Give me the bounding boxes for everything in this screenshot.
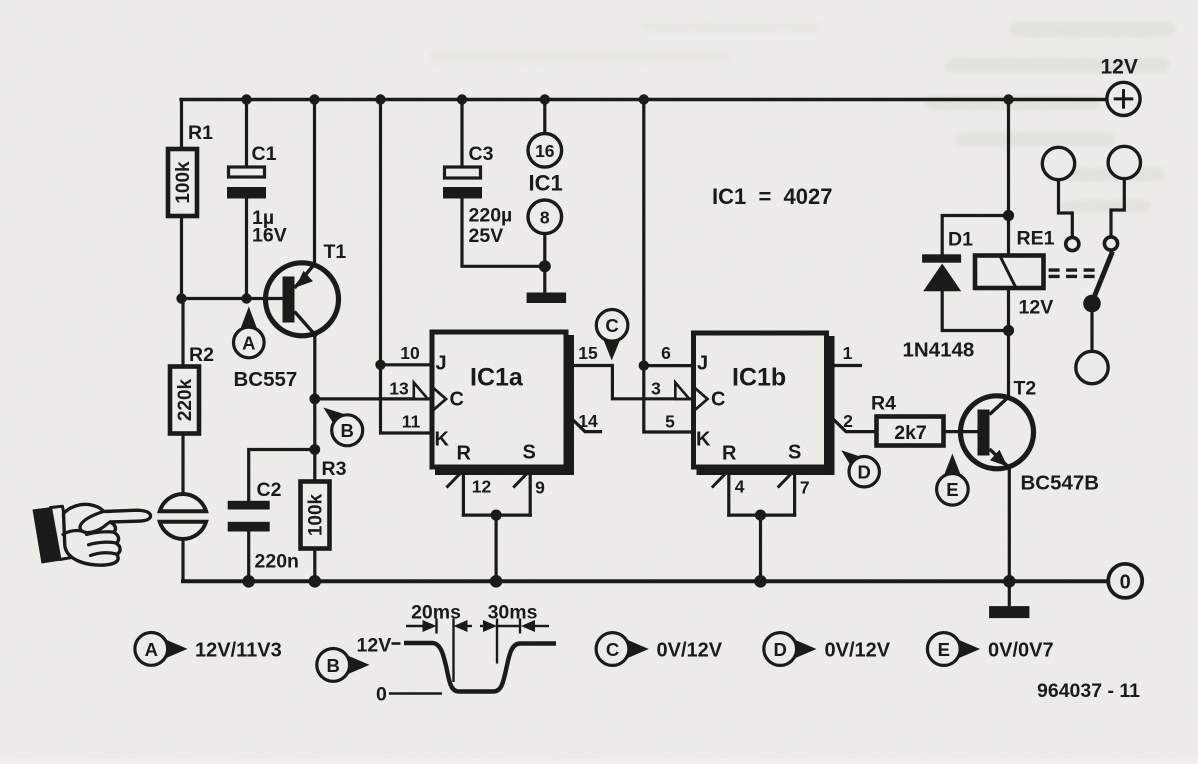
ground bar at 0V rail right — [989, 606, 1029, 618]
wire: IC1a Q output 15 to IC1b clock pin 3 — [567, 366, 692, 399]
wire: T1 collector down to R3 — [313, 334, 316, 481]
IC1b clock flag — [675, 383, 689, 399]
legend marker D — [764, 633, 891, 666]
IC1a clock chevron — [431, 386, 447, 413]
wire: C1 upper lead — [245, 100, 248, 168]
IC1a pin number labels — [389, 343, 598, 498]
wire: IC1a pin 12 flag — [448, 471, 464, 487]
wire: right contact lead — [1111, 179, 1124, 237]
wire: C3 lower lead across to IC1 pin 8 node — [462, 198, 545, 266]
resistor R3 — [301, 482, 330, 549]
switch lever — [1093, 252, 1113, 302]
wire: IC1b S pin 7 — [793, 468, 796, 515]
waveform trace — [404, 643, 556, 692]
wire: T1 emitter to top rail — [313, 100, 316, 267]
wire: D1 bottom branch — [942, 291, 1008, 331]
dimension arrowheads — [423, 620, 437, 632]
wire: IC1b J/K tie vertical from top rail — [644, 100, 692, 433]
wire: switch pole lead — [1090, 304, 1093, 352]
op-amp block IC1b (JK flip-flop) — [675, 333, 832, 473]
dimension lines 30ms — [480, 625, 485, 627]
hand pointer icon — [33, 504, 151, 565]
wire: IC1b R-S join — [729, 513, 795, 516]
0V terminal — [1108, 564, 1142, 598]
node C marker — [596, 310, 628, 361]
wire: IC1b R pin 4 — [727, 468, 730, 515]
wire: T2 emitter to 0V rail — [1008, 468, 1011, 582]
ground bar under IC1 pin 8 — [527, 293, 567, 304]
switch fixed contact left (open circle) — [1066, 237, 1079, 250]
wire: IC1 pin 16 lead from top rail — [543, 100, 546, 135]
relay RE1 — [975, 256, 1044, 289]
IC1 pin 16 supply circle — [528, 134, 562, 168]
switch pivot dot — [1083, 295, 1101, 313]
legend marker E — [927, 633, 1053, 666]
node D marker — [841, 450, 879, 487]
wire: IC1a R-S to 0V rail — [495, 515, 498, 581]
wire: IC1a pin 9 flag — [514, 471, 530, 487]
capacitor C3 — [443, 167, 482, 199]
wire: C3 upper lead — [460, 100, 463, 168]
wire: IC1a R-S join — [463, 513, 530, 516]
legend marker C — [596, 633, 723, 666]
wire: node B to IC1a clock pin 13 — [315, 397, 430, 400]
waveform at node B — [389, 619, 556, 694]
resistor R1 — [168, 149, 197, 216]
wire: left vertical through R1 from rail to node A — [180, 100, 183, 299]
switch contact terminal left — [1042, 147, 1074, 179]
wire: ground stub at 0V rail — [1008, 581, 1011, 606]
wire: C2 bottom lead to 0V rail — [247, 531, 250, 581]
IC1b pin number labels — [651, 343, 853, 498]
wire: IC1b R-S to 0V rail — [759, 515, 762, 581]
wire: left contact lead — [1059, 180, 1073, 237]
wire: vertical through R2 to touch contact — [181, 299, 184, 494]
wire: IC1 pin 8 lead to ground — [543, 234, 546, 294]
IC1b clock chevron — [692, 386, 708, 413]
resistor R2 — [170, 367, 199, 434]
capacitor C1 — [227, 167, 266, 199]
wire: D1 top branch — [942, 216, 1008, 255]
diode D1 1N4148 — [922, 254, 961, 291]
switch fixed contact right (open circle) — [1104, 237, 1117, 250]
wire: R4 to T2 base — [946, 430, 978, 433]
12V level tick — [392, 642, 401, 645]
relay actuating dashed link — [1049, 270, 1098, 276]
wire: IC1b J pin 6 — [644, 364, 692, 367]
wire: relay supply vertical upper — [1007, 100, 1010, 255]
wire: IC1a pin 14 stub — [569, 416, 601, 432]
resistor R4 — [877, 417, 944, 446]
wire: IC1b pin 7 flag — [779, 471, 795, 487]
transistor T2 BC547B — [961, 396, 1034, 469]
wire: IC1a J/K tie vertical from top rail — [381, 100, 431, 434]
dimension lines 20ms — [406, 625, 425, 627]
waveform 0V reference line — [389, 692, 442, 694]
node E marker — [937, 454, 969, 506]
junction dots node B column — [309, 394, 320, 455]
switch contact terminal right — [1108, 146, 1140, 178]
node A marker — [234, 307, 265, 358]
IC1 pin 8 supply circle — [528, 200, 562, 234]
touch sensor contact plates — [160, 494, 206, 539]
legend marker B — [317, 649, 370, 682]
junction dots top rail — [241, 94, 1013, 104]
switch pole terminal — [1076, 351, 1108, 383]
wire: IC1b pin 4 flag — [713, 471, 729, 487]
wire: node A horizontal to T1 base — [182, 297, 285, 300]
wire: 0V bottom rail — [183, 579, 1109, 583]
junction dots bottom rail — [242, 575, 1015, 588]
wire: relay to T2 collector — [1007, 289, 1010, 397]
wire: C1 lower lead to node A — [245, 198, 248, 299]
wire: IC1b Q output pin 1 stub — [828, 364, 861, 367]
node B marker — [323, 408, 362, 446]
waveform labels — [357, 602, 538, 706]
wire: C2 top lead up and across to node B column — [249, 450, 315, 502]
IC1a clock flag — [414, 383, 428, 399]
junction dots node A row — [176, 293, 251, 303]
junction dots misc — [375, 210, 1014, 521]
wire: IC1a J pin 10 — [381, 363, 431, 366]
wire: IC1b pin 2 to R4 — [830, 416, 875, 432]
wire: touch contact to bottom rail — [181, 540, 184, 581]
op-amp block IC1a (JK flip-flop) — [414, 332, 572, 473]
capacitor C2 — [228, 501, 270, 532]
transistor T1 BC557 — [266, 263, 339, 337]
wire: IC1a R pin 12 — [462, 468, 465, 515]
wire: R3 bottom to 0V rail — [313, 550, 316, 581]
legend marker A — [135, 633, 282, 666]
wire: +12V top supply rail — [181, 98, 1107, 101]
wire: IC1a S pin 9 — [529, 468, 532, 515]
+12V supply terminal — [1107, 82, 1140, 115]
